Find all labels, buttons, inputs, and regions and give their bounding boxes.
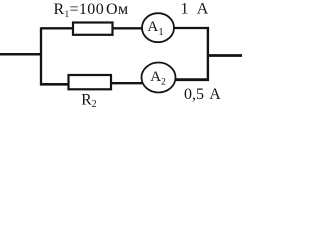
svg-text:R1=100Ом: R1=100Ом bbox=[54, 1, 129, 19]
svg-text:0,5А: 0,5А bbox=[184, 86, 221, 103]
svg-text:R2: R2 bbox=[81, 91, 96, 110]
svg-text:A2: A2 bbox=[150, 69, 166, 87]
svg-text:1А: 1А bbox=[181, 1, 209, 18]
svg-text:A1: A1 bbox=[147, 19, 163, 38]
